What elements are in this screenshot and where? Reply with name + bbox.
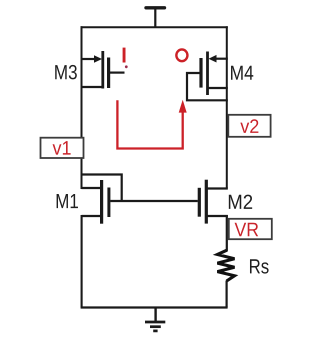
transistor M4 source lead with arrow bbox=[209, 55, 228, 63]
VDD supply bar bbox=[146, 6, 165, 9]
VDD supply stub wire bbox=[154, 8, 156, 28]
label M3 bbox=[55, 65, 77, 80]
top rail wire bbox=[81, 26, 228, 28]
node O label (red) bbox=[176, 49, 187, 61]
transistor M3 drain lead wire bbox=[82, 86, 104, 88]
label M4 bbox=[231, 66, 253, 80]
right vertical wire (resistor to ground rail) bbox=[226, 281, 228, 308]
right vertical wire (VDD rail to M2 drain) bbox=[226, 26, 228, 188]
label Rs bbox=[250, 259, 269, 273]
ground symbol bbox=[145, 307, 165, 331]
node v1 label bbox=[53, 141, 71, 154]
node VR label bbox=[235, 223, 259, 236]
transistor M1 diode wrap wire (drain to gate) bbox=[82, 175, 122, 202]
transistor M3 source lead with arrow bbox=[82, 55, 103, 63]
left vertical wire (VDD rail to M1 drain) bbox=[81, 26, 83, 189]
transistor M4 gate wrap wire (gate to drain, diode connection) bbox=[187, 73, 228, 100]
node I label (red) bbox=[123, 48, 128, 69]
transistor M1 gate bar bbox=[107, 188, 110, 218]
transistor M4 channel bar bbox=[206, 52, 209, 96]
transistor M1 channel bar bbox=[100, 180, 103, 224]
transistor M4 gate bar bbox=[199, 58, 202, 88]
right vertical wire (M2 source to resistor) bbox=[226, 215, 228, 252]
node v2 label bbox=[240, 119, 258, 133]
transistor M2 gate bar bbox=[198, 188, 201, 217]
gate line wire M1 to M2 bbox=[110, 200, 198, 202]
transistor M3 channel bar bbox=[101, 51, 104, 89]
node v2 box bbox=[228, 115, 270, 137]
node VR box bbox=[229, 219, 272, 239]
transistor M3 gate bar bbox=[107, 58, 110, 89]
transistor M3 gate stub wire bbox=[110, 71, 125, 73]
resistor Rs zigzag bbox=[217, 250, 234, 281]
label M2 bbox=[229, 195, 252, 209]
transistor M2 channel bar bbox=[205, 180, 208, 224]
left vertical wire (M1 source to ground rail) bbox=[81, 215, 83, 308]
transistor M1 source lead wire bbox=[82, 215, 102, 217]
transistor M1 drain lead wire bbox=[82, 187, 102, 189]
transistor M4 drain lead wire bbox=[207, 87, 228, 89]
transistor M2 drain lead wire bbox=[206, 187, 228, 189]
bottom ground rail wire bbox=[81, 306, 228, 308]
red current path arrow from I to O bbox=[117, 100, 186, 149]
label M1 bbox=[57, 194, 78, 208]
node v1 box bbox=[41, 138, 84, 158]
transistor M2 source lead wire bbox=[206, 215, 228, 217]
